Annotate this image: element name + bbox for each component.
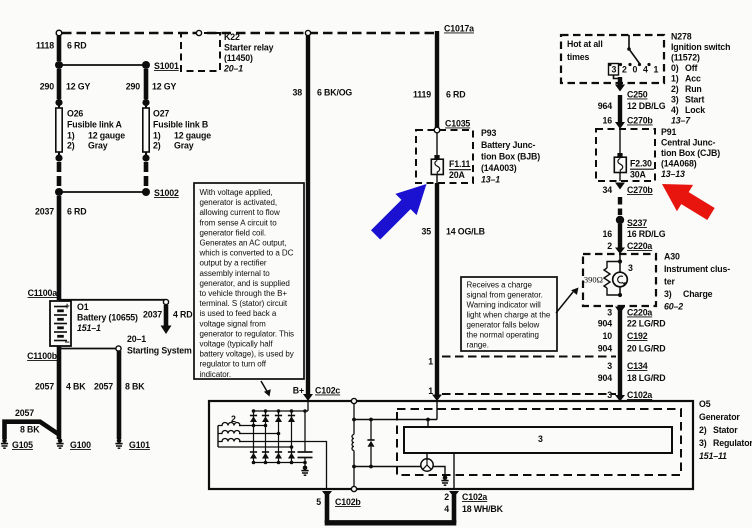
svg-text:904: 904 xyxy=(598,319,612,329)
svg-text:Gray: Gray xyxy=(88,141,108,151)
splice S237 xyxy=(616,216,647,228)
svg-text:1): 1) xyxy=(67,131,75,141)
capacitor xyxy=(298,411,313,466)
wire 2057 4 BK xyxy=(35,346,86,439)
svg-text:regulator to turn off: regulator to turn off xyxy=(200,360,267,369)
generator O5 box xyxy=(209,401,693,489)
wire 964 12 DB/LG xyxy=(598,95,666,129)
svg-text:904: 904 xyxy=(598,344,612,354)
wire pin 5 C102b xyxy=(316,491,361,523)
svg-text:C102b: C102b xyxy=(335,497,361,507)
wire segment below O26 xyxy=(57,162,62,189)
svg-text:tion Box (BJB): tion Box (BJB) xyxy=(481,152,540,162)
svg-text:F2.30: F2.30 xyxy=(630,159,652,169)
svg-text:6 BK/OG: 6 BK/OG xyxy=(317,88,352,98)
svg-text:Regulator: Regulator xyxy=(713,438,752,448)
svg-text:O26: O26 xyxy=(67,109,83,119)
svg-text:times: times xyxy=(567,52,589,62)
svg-text:12 GY: 12 GY xyxy=(66,82,90,92)
wire pin 2 pin 4 C102a xyxy=(444,453,503,523)
svg-text:(11450): (11450) xyxy=(224,53,253,63)
wire 1119 6 RD xyxy=(413,31,465,128)
svg-text:2): 2) xyxy=(153,141,161,151)
field suppression diode xyxy=(367,420,374,467)
svg-text:generator falls below: generator falls below xyxy=(467,321,540,330)
svg-text:4: 4 xyxy=(444,504,449,514)
svg-text:0): 0) xyxy=(671,63,679,73)
svg-text:8 BK: 8 BK xyxy=(125,382,145,392)
svg-text:Instrument clus-: Instrument clus- xyxy=(664,264,730,274)
switch contacts 3 2 0 4 1 xyxy=(608,63,658,75)
ignition switch N278 box xyxy=(561,35,664,83)
svg-text:signal from generator.: signal from generator. xyxy=(467,291,543,300)
svg-text:C1100b: C1100b xyxy=(27,351,58,361)
stator S tap wire to pin 5 xyxy=(239,442,327,490)
svg-text:N278: N278 xyxy=(671,32,692,42)
rectifier bridge diodes xyxy=(250,409,308,464)
svg-text:16 RD/LG: 16 RD/LG xyxy=(627,229,666,239)
svg-text:1): 1) xyxy=(671,74,679,84)
svg-text:Generates an AC output,: Generates an AC output, xyxy=(200,239,287,248)
wire 16 16 RD/LG xyxy=(603,224,666,254)
svg-text:generator field coil.: generator field coil. xyxy=(200,228,267,237)
pin 3 connector C220a below cluster xyxy=(607,308,652,318)
component label N278 xyxy=(671,32,730,126)
svg-text:1119: 1119 xyxy=(413,90,431,100)
svg-text:S1001: S1001 xyxy=(154,61,179,71)
note arrow to B+ xyxy=(261,381,271,397)
pin 16 connector C270b xyxy=(603,116,654,126)
svg-text:Central Junc-: Central Junc- xyxy=(661,138,715,148)
svg-text:Hot at all: Hot at all xyxy=(567,39,603,49)
svg-text:13–13: 13–13 xyxy=(661,169,685,179)
svg-text:3: 3 xyxy=(612,65,617,75)
splice S1001 xyxy=(55,61,179,71)
svg-text:13–7: 13–7 xyxy=(671,116,691,126)
ground G100 xyxy=(56,439,63,449)
wire 290 12 GY right xyxy=(126,69,177,99)
svg-text:12 gauge: 12 gauge xyxy=(88,131,125,141)
svg-text:290: 290 xyxy=(40,82,54,92)
wire 2057 8 BK to G101 xyxy=(59,346,145,439)
svg-text:60–2: 60–2 xyxy=(664,302,683,312)
svg-text:0: 0 xyxy=(633,65,638,75)
stator phase wires xyxy=(218,424,293,449)
svg-text:14 OG/LB: 14 OG/LB xyxy=(446,227,485,237)
svg-text:4: 4 xyxy=(643,65,648,75)
svg-text:2): 2) xyxy=(671,84,679,94)
svg-text:290: 290 xyxy=(126,82,140,92)
svg-text:Battery (10655): Battery (10655) xyxy=(77,313,138,323)
svg-text:1: 1 xyxy=(428,357,433,367)
svg-text:3: 3 xyxy=(607,361,612,371)
svg-text:22 LG/RD: 22 LG/RD xyxy=(627,319,665,329)
pin 34 connector C270b xyxy=(603,183,654,196)
svg-text:10: 10 xyxy=(603,331,613,341)
svg-text:Receives a charge: Receives a charge xyxy=(467,281,533,290)
output transistor xyxy=(421,453,433,471)
svg-text:18 WH/BK: 18 WH/BK xyxy=(462,504,504,514)
svg-text:2037: 2037 xyxy=(143,310,162,320)
svg-text:battery voltage), is used by: battery voltage), is used by xyxy=(200,350,294,359)
svg-text:Generator: Generator xyxy=(699,412,740,422)
svg-text:generator is activated,: generator is activated, xyxy=(200,198,278,207)
svg-text:151–1: 151–1 xyxy=(77,323,101,333)
svg-text:Starting System: Starting System xyxy=(127,346,192,356)
svg-text:from sense A circuit to: from sense A circuit to xyxy=(200,218,278,227)
svg-text:2): 2) xyxy=(699,425,707,435)
svg-text:O27: O27 xyxy=(153,109,169,119)
svg-text:6 RD: 6 RD xyxy=(67,41,86,51)
wire 904 18 LG/RD xyxy=(598,373,666,383)
wire from terminal 3 xyxy=(614,75,626,92)
svg-text:16: 16 xyxy=(603,116,613,126)
svg-text:20A: 20A xyxy=(449,170,465,180)
red callout arrow xyxy=(662,184,715,220)
svg-text:13–1: 13–1 xyxy=(481,175,500,185)
svg-text:G101: G101 xyxy=(129,440,150,450)
svg-text:38: 38 xyxy=(293,88,303,98)
svg-text:20–1: 20–1 xyxy=(223,64,243,74)
resistor 390 ohm xyxy=(584,262,620,296)
svg-text:16: 16 xyxy=(603,229,613,239)
field winding xyxy=(352,404,354,487)
connector C1035 xyxy=(434,119,470,133)
svg-text:2037: 2037 xyxy=(35,207,54,217)
wire transistor to ground xyxy=(433,467,445,477)
svg-text:151–11: 151–11 xyxy=(699,451,727,461)
svg-text:1): 1) xyxy=(153,131,161,141)
svg-text:G100: G100 xyxy=(70,440,91,450)
svg-text:C270b: C270b xyxy=(627,116,653,126)
wire field low side xyxy=(352,465,421,469)
wire sense A inside generator xyxy=(352,401,437,427)
svg-text:C250: C250 xyxy=(627,90,648,100)
svg-text:C220a: C220a xyxy=(627,308,652,318)
svg-text:−: − xyxy=(65,337,70,347)
svg-text:C1017a: C1017a xyxy=(444,24,474,34)
svg-text:is used to feed back a: is used to feed back a xyxy=(200,309,277,318)
svg-text:C1035: C1035 xyxy=(445,119,470,129)
svg-text:voltage signal from: voltage signal from xyxy=(200,319,267,328)
svg-text:Run: Run xyxy=(685,84,702,94)
svg-text:(14A068): (14A068) xyxy=(661,159,697,169)
svg-text:3: 3 xyxy=(607,308,612,318)
svg-text:Ignition switch: Ignition switch xyxy=(671,42,730,52)
fuse F1.11 20A xyxy=(431,133,471,183)
svg-text:4 RD: 4 RD xyxy=(173,310,192,320)
svg-text:18 LG/RD: 18 LG/RD xyxy=(627,373,665,383)
svg-text:voltage (typically half: voltage (typically half xyxy=(200,340,274,349)
svg-text:3: 3 xyxy=(628,263,633,273)
svg-text:generator to regulator. This: generator to regulator. This xyxy=(200,329,295,338)
svg-text:3): 3) xyxy=(671,95,679,105)
note box charge signal xyxy=(461,277,557,351)
svg-text:Start: Start xyxy=(685,95,705,105)
svg-text:O1: O1 xyxy=(77,302,89,312)
connector line C102a dashed xyxy=(442,393,616,395)
svg-text:6 RD: 6 RD xyxy=(446,90,465,100)
svg-text:C102a: C102a xyxy=(462,492,487,502)
node C102c on generator top edge xyxy=(351,398,356,403)
fuse F2.30 30A xyxy=(614,129,654,181)
svg-text:B+: B+ xyxy=(293,386,304,396)
wire 904 22 LG/RD xyxy=(598,319,666,329)
svg-text:generator, and is supplied: generator, and is supplied xyxy=(200,279,290,288)
svg-text:C1100a: C1100a xyxy=(28,288,58,298)
svg-text:34: 34 xyxy=(603,185,613,195)
blue callout arrow xyxy=(371,184,427,240)
svg-text:S237: S237 xyxy=(627,218,647,228)
fusible link O26 xyxy=(55,99,125,162)
svg-text:8 BK: 8 BK xyxy=(20,425,40,435)
wire 2037 6 RD xyxy=(35,196,86,300)
svg-text:indicator.: indicator. xyxy=(200,370,232,379)
svg-text:assembly internal to: assembly internal to xyxy=(200,269,271,278)
component label P93 xyxy=(481,128,540,185)
stator windings 2 xyxy=(218,414,240,447)
svg-text:Warning indicator will: Warning indicator will xyxy=(467,301,541,310)
svg-text:2: 2 xyxy=(607,241,612,251)
svg-text:F1.11: F1.11 xyxy=(449,159,471,169)
ground G105 xyxy=(1,439,8,449)
svg-text:S1002: S1002 xyxy=(154,188,179,198)
svg-text:+: + xyxy=(65,301,70,311)
svg-text:2): 2) xyxy=(67,141,75,151)
svg-text:Battery Junc-: Battery Junc- xyxy=(481,140,535,150)
ground capacitor xyxy=(301,466,308,476)
svg-text:light when charge at the: light when charge at the xyxy=(467,311,551,320)
regulator block 3 xyxy=(404,427,672,453)
junction box P93 BJB xyxy=(416,130,473,183)
svg-text:which is converted to a DC: which is converted to a DC xyxy=(199,249,294,258)
svg-text:390Ω: 390Ω xyxy=(584,275,603,285)
svg-text:G105: G105 xyxy=(12,440,33,450)
wire 1118 6 RD xyxy=(36,36,86,61)
node at top of wire 38 xyxy=(305,30,310,35)
svg-text:range.: range. xyxy=(467,341,489,350)
svg-text:ter: ter xyxy=(664,277,676,287)
svg-text:2: 2 xyxy=(622,65,627,75)
svg-text:allowing current to flow: allowing current to flow xyxy=(200,208,280,217)
wire 2057 8 BK to G105 xyxy=(5,408,60,439)
splice S1002 xyxy=(55,188,179,198)
svg-text:Starter relay: Starter relay xyxy=(224,43,274,53)
component label O5 generator xyxy=(699,399,752,461)
svg-text:3: 3 xyxy=(607,390,612,400)
svg-text:Fusible link B: Fusible link B xyxy=(153,120,208,130)
svg-text:C270b: C270b xyxy=(627,185,653,195)
svg-text:12 GY: 12 GY xyxy=(152,82,176,92)
svg-text:Charge: Charge xyxy=(683,289,713,299)
svg-text:3: 3 xyxy=(538,434,543,444)
svg-text:1: 1 xyxy=(428,386,433,396)
svg-text:P91: P91 xyxy=(661,127,676,137)
svg-text:to vehicle through the B+: to vehicle through the B+ xyxy=(200,289,288,298)
svg-text:(11572): (11572) xyxy=(671,53,700,63)
svg-text:5: 5 xyxy=(316,497,321,507)
svg-text:O5: O5 xyxy=(699,399,711,409)
wire 18 WH/BK bottom link xyxy=(325,520,457,525)
svg-text:C192: C192 xyxy=(627,331,648,341)
note box generator operation xyxy=(194,183,304,379)
svg-text:35: 35 xyxy=(422,227,432,237)
pin 10 connector C192 xyxy=(603,331,648,341)
wire 904 LG/RD chain xyxy=(615,306,625,402)
wire dashed hot feed bus xyxy=(62,32,437,34)
svg-text:30A: 30A xyxy=(630,170,646,180)
svg-text:20–1: 20–1 xyxy=(127,334,146,344)
svg-text:C220a: C220a xyxy=(627,241,652,251)
wire 904 20 LG/RD xyxy=(598,344,666,354)
instrument cluster A30 box xyxy=(583,254,656,306)
svg-text:Fusible link A: Fusible link A xyxy=(67,120,123,130)
fusible link O27 xyxy=(142,99,211,162)
svg-text:4): 4) xyxy=(671,105,679,115)
svg-text:C102c: C102c xyxy=(315,386,340,396)
wire dashes below C270b xyxy=(618,197,622,215)
battery O1 xyxy=(50,301,138,347)
svg-text:terminal. S (stator) circuit: terminal. S (stator) circuit xyxy=(200,299,288,308)
ground regulator xyxy=(441,476,448,486)
svg-text:P93: P93 xyxy=(481,128,496,138)
svg-text:With voltage applied,: With voltage applied, xyxy=(200,188,273,197)
svg-text:3): 3) xyxy=(699,438,707,448)
wire battery positive to starting system xyxy=(59,299,192,355)
wire 38 6 BK/OG xyxy=(293,36,353,401)
pin 2 connector C220a xyxy=(607,241,652,251)
svg-text:2057: 2057 xyxy=(94,382,113,392)
svg-text:2: 2 xyxy=(444,492,449,502)
svg-text:output by a rectifier: output by a rectifier xyxy=(200,259,267,268)
pin 3 connector C102a xyxy=(607,390,652,400)
svg-text:tion Box (CJB): tion Box (CJB) xyxy=(661,148,720,158)
wire 290 12 GY left xyxy=(40,69,91,99)
svg-text:12 gauge: 12 gauge xyxy=(174,131,211,141)
svg-text:Gray: Gray xyxy=(174,141,194,151)
cluster internal wire xyxy=(618,254,622,297)
svg-text:C102a: C102a xyxy=(627,390,652,400)
component label A30 xyxy=(664,252,730,312)
svg-text:the normal operating: the normal operating xyxy=(467,331,539,340)
svg-text:K22: K22 xyxy=(224,32,240,42)
svg-text:(14A003): (14A003) xyxy=(481,163,517,173)
svg-text:20 LG/RD: 20 LG/RD xyxy=(627,344,665,354)
wire 35 14 OG/LB xyxy=(422,183,485,401)
node on generator bottom edge xyxy=(351,486,356,491)
svg-text:2057: 2057 xyxy=(35,382,54,392)
svg-text:3): 3) xyxy=(664,289,672,299)
svg-text:12 DB/LG: 12 DB/LG xyxy=(627,101,666,111)
connector line C134 dashed xyxy=(442,356,616,358)
svg-text:2057: 2057 xyxy=(15,408,34,418)
pin 3 connector C134 xyxy=(607,361,647,371)
svg-text:1118: 1118 xyxy=(36,41,54,51)
svg-text:Stator: Stator xyxy=(713,425,738,435)
svg-text:904: 904 xyxy=(598,373,612,383)
svg-text:964: 964 xyxy=(598,101,612,111)
B+ drop to rectifier rail xyxy=(303,401,308,413)
node at top of 1118 wire xyxy=(56,30,62,36)
ground G101 xyxy=(115,439,122,449)
svg-text:A30: A30 xyxy=(664,252,680,262)
component label P91 xyxy=(661,127,720,179)
svg-text:Off: Off xyxy=(685,63,697,73)
svg-text:4 BK: 4 BK xyxy=(66,382,86,392)
wire segment below O27 xyxy=(144,162,149,189)
svg-text:1: 1 xyxy=(654,65,659,75)
charge indicator bulb xyxy=(613,263,633,287)
junction box P91 CJB xyxy=(596,129,655,181)
svg-text:C134: C134 xyxy=(627,361,648,371)
svg-text:Acc: Acc xyxy=(685,74,701,84)
regulator dashed box xyxy=(397,409,681,475)
svg-text:6 RD: 6 RD xyxy=(67,207,86,217)
switch lever xyxy=(627,35,639,64)
svg-text:Lock: Lock xyxy=(685,105,705,115)
relay K22 Starter relay xyxy=(181,30,274,73)
note arrow to cluster xyxy=(556,288,579,314)
